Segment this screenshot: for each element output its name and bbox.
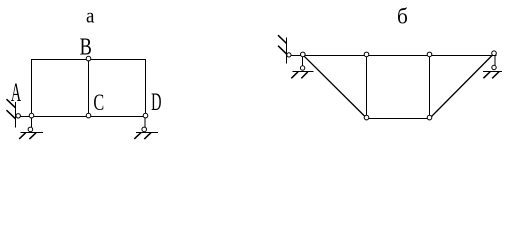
support ground hatch 1 below D (134, 133, 141, 139)
member bottom chord (right truss) (367, 118, 430, 120)
member vertical T2-BL (366, 55, 368, 119)
support ground hatch 1 below T4 (483, 72, 490, 79)
node A (29, 113, 34, 118)
label C (93, 90, 104, 115)
support roller circle left of A (16, 114, 20, 118)
support link below D (144, 117, 146, 128)
support ground hatch 1 below A (19, 133, 26, 139)
member top chord (left frame) (31, 59, 146, 61)
label б (right scheme title) (397, 4, 408, 28)
svg-text:A: A (11, 77, 21, 107)
node T2 (364, 52, 369, 57)
support wall line (horizontal link support at T1) (286, 38, 288, 64)
svg-text:а: а (86, 5, 95, 28)
svg-text:C: C (93, 90, 104, 115)
support roller circle below D (142, 127, 147, 132)
member vertical T3-BR (429, 55, 431, 119)
support link below A (31, 117, 33, 128)
support ground line below D (136, 132, 158, 134)
support wall hatch 2 at A (7, 110, 16, 119)
label D (151, 89, 161, 116)
node C (86, 113, 91, 118)
support wall hatch 1 at A (7, 99, 16, 108)
support ground hatch 2 below T4 (492, 72, 499, 79)
support ground line below T1 (293, 71, 314, 73)
svg-text:D: D (151, 89, 161, 116)
support ground line below A (21, 132, 43, 134)
support ground hatch 2 below T1 (301, 72, 308, 79)
member diagonal T4-BR (430, 54, 495, 119)
member top chord (right truss) (291, 55, 497, 57)
node T4 (492, 51, 497, 56)
node D (143, 113, 148, 118)
svg-text:б: б (397, 4, 408, 28)
support roller circle below T4 (492, 65, 496, 69)
member AD bottom chord (left frame) (18, 116, 146, 118)
support ground hatch 2 below D (144, 133, 151, 139)
support link below T1 (302, 56, 304, 67)
support wall line (horizontal link support at A) (15, 102, 17, 128)
node T1 (301, 52, 306, 57)
svg-text:B: B (80, 33, 92, 60)
node B (86, 56, 91, 61)
support roller circle left of T1 (287, 53, 291, 57)
node T3 (427, 52, 432, 57)
support link below T4 (494, 55, 496, 65)
support wall hatch 1 at T1 (278, 35, 287, 43)
node BR (427, 115, 432, 120)
node BL (364, 115, 369, 120)
member diagonal T1-BL (303, 55, 367, 118)
label B (80, 33, 92, 60)
support wall hatch 2 at T1 (278, 46, 287, 54)
support ground line below T4 (483, 71, 502, 73)
member right column above D (145, 59, 147, 117)
support ground hatch 1 below T1 (291, 72, 298, 79)
support roller circle below T1 (300, 66, 304, 70)
support ground hatch 2 below A (29, 133, 36, 139)
member middle post B-C (88, 59, 90, 117)
label A (11, 77, 21, 107)
label а (left scheme title) (86, 5, 95, 28)
member left column above A (31, 59, 33, 117)
support roller circle below A (28, 127, 33, 132)
